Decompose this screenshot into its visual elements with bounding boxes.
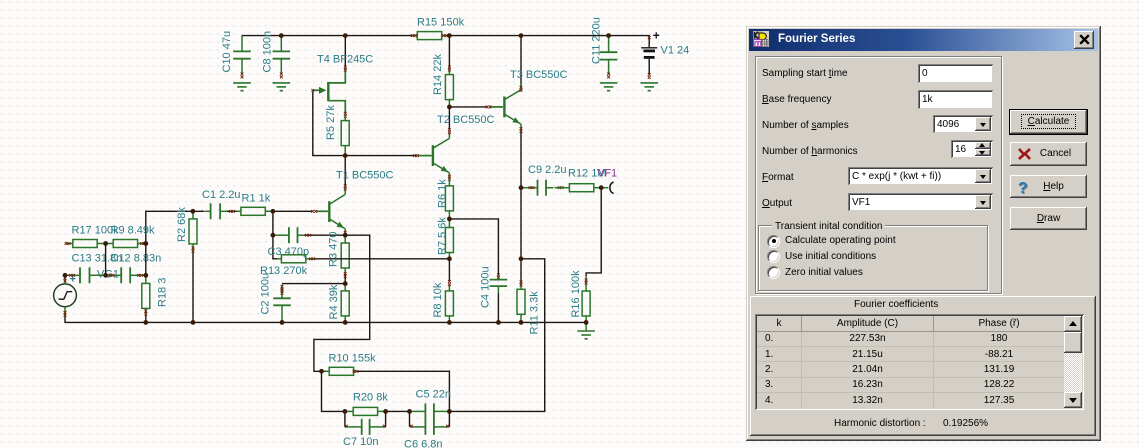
label V1 24: [661, 45, 690, 57]
label C11 220u: [591, 17, 603, 64]
label R11 3.3k: [529, 291, 541, 335]
svg-text:VG1: VG1: [97, 269, 119, 281]
wire C12-R9 link: [145, 244, 147, 276]
label C8 100n: [261, 31, 273, 73]
svg-text:C5 22n: C5 22n: [416, 389, 451, 401]
node rail/C8: [279, 33, 284, 38]
label R20 8k: [353, 392, 388, 404]
svg-text:R8 10k: R8 10k: [432, 282, 444, 317]
svg-text:C9 2.2u: C9 2.2u: [528, 164, 567, 176]
node T2 collector/R14/T3 base: [447, 105, 452, 110]
capacitor C13: [65, 267, 106, 283]
resistor R20: [345, 407, 386, 415]
wire R18 bottom wire: [145, 310, 147, 323]
svg-text:+: +: [653, 29, 660, 43]
wire C3 to T1 emitter node: [304, 234, 346, 236]
transistor T1: [311, 185, 346, 237]
svg-text:VF1: VF1: [597, 168, 617, 180]
node T1 collector/R5/T2 base: [343, 153, 348, 158]
node C5/C6 right: [447, 409, 452, 414]
wire T3 collector to rail: [520, 36, 522, 89]
svg-text:R18 3: R18 3: [157, 278, 169, 307]
node T1 emitter/C3/R3: [343, 233, 348, 238]
label R15 150k: [417, 17, 465, 29]
wire R16 ground lead: [585, 322, 587, 331]
node rail/R16: [584, 320, 589, 325]
resistor R3: [341, 235, 349, 278]
svg-text:C6 6.8n: C6 6.8n: [404, 439, 443, 448]
label T1 BC550C: [336, 170, 394, 182]
resistor R10: [325, 367, 359, 375]
wire output column down: [586, 188, 601, 277]
label C1 2.2u: [202, 189, 241, 201]
svg-text:R7 5.6k: R7 5.6k: [437, 217, 449, 255]
ground C11: [600, 83, 618, 91]
resistor R15: [411, 32, 448, 40]
capacitor C12: [106, 267, 146, 283]
node A R1/C3/R13: [271, 209, 276, 214]
node C3 left: [271, 233, 276, 238]
node R17/R9: [103, 241, 108, 246]
svg-text:T1 BC550C: T1 BC550C: [336, 170, 394, 182]
wire top rail left segment: [242, 35, 412, 37]
node R2 top: [191, 209, 196, 214]
label VF1: [597, 168, 617, 180]
wire T3 emitter / R11 column: [520, 130, 522, 282]
wire R3 bottom wire: [344, 273, 346, 284]
wire C6 left stub: [409, 411, 411, 427]
wire C2 to R3R4 node: [282, 283, 345, 285]
capacitor C2: [273, 285, 291, 323]
node rail/T4 drain: [343, 33, 348, 38]
resistor R2: [189, 211, 197, 252]
capacitor C11: [600, 36, 618, 79]
node rail/C2: [280, 320, 285, 325]
node rail/R15/R14: [447, 33, 452, 38]
wire T4 drain to rail: [344, 36, 346, 67]
resistor R9: [106, 240, 146, 248]
node R9/R18 input: [143, 241, 148, 246]
resistor R16: [582, 277, 590, 322]
resistor R7: [445, 219, 453, 259]
node C5/C6 left: [407, 409, 412, 414]
node rail/C11: [606, 33, 611, 38]
node rail/R2: [191, 320, 196, 325]
label R5 27k: [325, 105, 337, 140]
label R7 5.6k: [437, 217, 449, 255]
svg-text:R16 100k: R16 100k: [570, 270, 582, 318]
wire T3 base wire: [449, 106, 487, 108]
node rail/R4: [343, 320, 348, 325]
capacitor C1: [205, 203, 235, 219]
label R8 10k: [432, 282, 444, 317]
label VG1 plus: [70, 274, 76, 286]
transistor T3: [486, 82, 523, 132]
svg-text:C8 100n: C8 100n: [261, 31, 273, 73]
wire R20 to C5 wire: [386, 410, 410, 412]
wire R1 to T1 base wire: [265, 210, 313, 212]
wire C7 left stub: [344, 411, 346, 427]
label R16 100k: [570, 270, 582, 318]
wire node A vertical: [273, 211, 277, 258]
label C4 100u: [479, 266, 491, 308]
resistor R13: [277, 255, 315, 263]
node R20/C7 right: [383, 409, 388, 414]
label R12 1M: [568, 168, 607, 180]
label C10 47u: [221, 31, 233, 73]
svg-text:R10 155k: R10 155k: [329, 353, 377, 365]
label R6 1k: [437, 179, 449, 208]
svg-text:C2 100u: C2 100u: [260, 273, 272, 315]
output pin VF1: [601, 182, 613, 194]
wire C4 bottom wire: [497, 293, 499, 322]
svg-text:C7 10n: C7 10n: [343, 436, 378, 448]
node rail/T3 collector: [519, 33, 524, 38]
resistor R12: [555, 184, 602, 192]
wire C7 right stub: [385, 411, 387, 427]
label R17 100k: [72, 225, 120, 237]
capacitor C5: [410, 403, 449, 419]
wire R2 bottom wire: [192, 252, 194, 323]
svg-text:C4 100u: C4 100u: [479, 266, 491, 308]
node C13/C12: [103, 273, 108, 278]
label C7 10n: [343, 436, 378, 448]
label T4 BF245C: [317, 54, 373, 66]
wire T2 collector wire: [448, 107, 450, 130]
svg-text:R5 27k: R5 27k: [325, 105, 337, 140]
svg-text:T3 BC550C: T3 BC550C: [510, 69, 568, 81]
label C12 8.83n: [111, 253, 162, 265]
wire T1 collector wire: [344, 156, 346, 187]
node T3 emitter/C9: [519, 185, 524, 190]
svg-text:R15 150k: R15 150k: [417, 17, 465, 29]
wire C6 right stub: [448, 411, 450, 427]
svg-text:R4 39k: R4 39k: [328, 284, 340, 319]
wire T4 gate feedback loop: [313, 92, 417, 156]
capacitor C8: [273, 36, 291, 79]
wire R6R7 node to C4 top: [449, 219, 498, 275]
capacitor C10: [233, 36, 251, 79]
resistor R1: [237, 207, 273, 215]
node rail/R8: [447, 320, 452, 325]
wire feedback to R10: [314, 235, 370, 371]
wire feedback to R11 top: [449, 259, 544, 412]
svg-text:C10 47u: C10 47u: [221, 31, 233, 73]
label T2 BC550C: [437, 114, 495, 126]
resistor R8: [445, 280, 453, 322]
capacitor C9: [522, 180, 563, 196]
svg-text:C3 470p: C3 470p: [268, 246, 310, 258]
label C6 6.8n: [404, 439, 443, 448]
JFET T4: [311, 66, 346, 118]
label C3 470p: [268, 246, 310, 258]
svg-text:V1 24: V1 24: [661, 45, 690, 57]
resistor R5: [341, 115, 349, 156]
svg-text:C12 8.83n: C12 8.83n: [111, 253, 162, 265]
wire R13 to R7R8 node (crossing): [315, 258, 450, 260]
svg-text:R20 8k: R20 8k: [353, 392, 388, 404]
node R12/VF1 output: [599, 185, 604, 190]
wire R10 right wire: [357, 371, 450, 411]
wire top rail right segment: [447, 36, 650, 48]
resistor R4: [341, 284, 349, 323]
capacitor C6: [410, 419, 449, 435]
wire input node wire: [146, 211, 205, 243]
svg-text:C1 2.2u: C1 2.2u: [202, 189, 241, 201]
svg-text:R1 1k: R1 1k: [242, 193, 271, 205]
resistor R18: [142, 275, 150, 315]
svg-text:T4 BF245C: T4 BF245C: [317, 54, 373, 66]
svg-text:C11 220u: C11 220u: [591, 17, 603, 64]
node rail/C4: [496, 320, 501, 325]
label C5 22n: [416, 389, 451, 401]
wire C1 to R1 wire: [227, 210, 241, 212]
wire R14 top to rail: [448, 36, 450, 67]
svg-text:R6 1k: R6 1k: [437, 179, 449, 208]
label R9 8.49k: [111, 225, 156, 237]
resistor R11: [517, 281, 525, 323]
node R3/R4/C2: [343, 281, 348, 286]
node rail/R11: [519, 320, 524, 325]
node R11 top/feedback: [519, 256, 524, 261]
capacitor C3: [274, 227, 311, 243]
label R2 68k: [176, 207, 188, 242]
node C12/R18: [143, 273, 148, 278]
svg-text:R2 68k: R2 68k: [176, 207, 188, 242]
node rail/R18: [143, 320, 148, 325]
label T3 BC550C: [510, 69, 568, 81]
label R18 3: [157, 278, 169, 307]
svg-text:R3 470: R3 470: [327, 232, 339, 267]
label R14 22k: [432, 54, 444, 95]
label R1 1k: [242, 193, 271, 205]
label R4 39k: [328, 284, 340, 319]
label R13 270k: [260, 265, 308, 277]
label C9 2.2u: [528, 164, 567, 176]
resistor R17: [65, 240, 106, 248]
wire C13-R17 link: [105, 244, 107, 276]
label C2 100u: [260, 273, 272, 315]
svg-text:R11 3.3k: R11 3.3k: [529, 291, 541, 335]
svg-text:R9 8.49k: R9 8.49k: [111, 225, 156, 237]
svg-text:R14 22k: R14 22k: [432, 54, 444, 95]
label V1 plus: [653, 29, 660, 43]
wire bottom rail: [65, 316, 586, 322]
svg-text:T2 BC550C: T2 BC550C: [437, 114, 495, 126]
resistor R14: [445, 66, 453, 107]
label R3 470: [327, 232, 339, 267]
node R10 left: [319, 369, 324, 374]
ground C10: [233, 83, 251, 91]
label VG1: [97, 269, 119, 281]
resistor R6: [445, 178, 453, 219]
ground R16: [577, 331, 595, 339]
capacitor C7: [345, 419, 386, 435]
node R6/R7/C4: [447, 217, 452, 222]
battery V1: [641, 36, 657, 79]
node R20/C7 left: [343, 409, 348, 414]
transistor T2: [413, 128, 451, 180]
label R10 155k: [329, 353, 377, 365]
ground V1: [640, 83, 658, 91]
node VG1/C13: [63, 273, 68, 278]
ground C8: [273, 83, 291, 91]
label C13 31.8n: [72, 253, 123, 265]
capacitor C4: [490, 273, 508, 293]
voltage generator VG1: [54, 275, 77, 317]
wire R10 left node down: [322, 371, 345, 411]
node R7/R8/R13: [447, 256, 452, 261]
wire R8 top wire: [448, 259, 450, 282]
